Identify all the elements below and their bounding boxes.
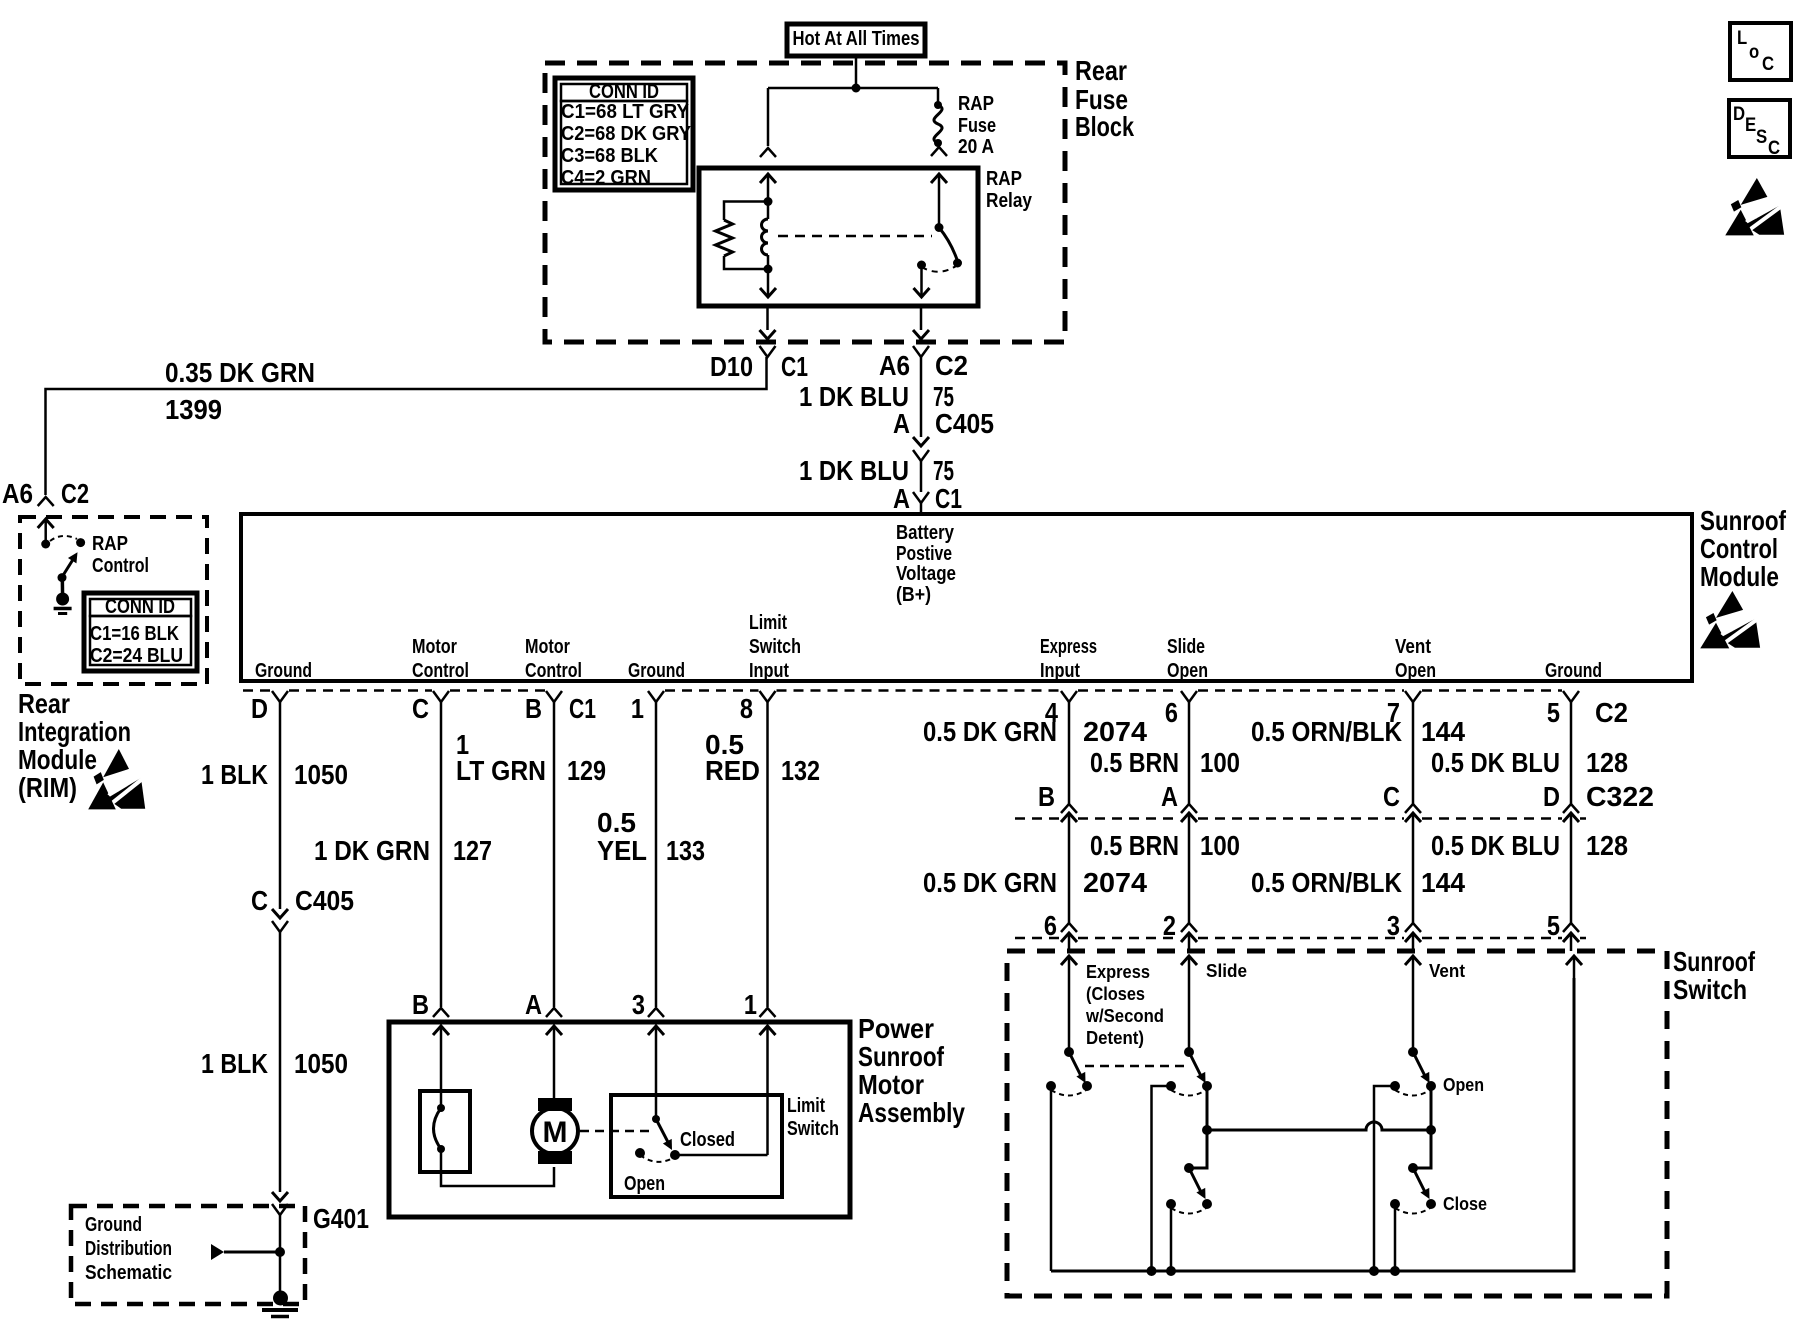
svg-text:Motor: Motor	[412, 636, 457, 658]
svg-text:Slide: Slide	[1206, 961, 1247, 981]
sunroof control module box	[241, 514, 1692, 681]
svg-text:Fuse: Fuse	[958, 115, 996, 137]
connector ID table (rear fuse block)	[555, 78, 693, 190]
wire 1 DK BLU 75 upper segment	[920, 357, 923, 437]
svg-text:A: A	[893, 408, 910, 439]
svg-text:6: 6	[1044, 910, 1057, 941]
svg-text:100: 100	[1200, 747, 1240, 778]
svg-text:Closed: Closed	[680, 1129, 735, 1151]
wire slide close common to bus	[1170, 1204, 1173, 1271]
wire coil to relay pin bottom	[767, 269, 770, 296]
svg-text:Sunroof: Sunroof	[1700, 505, 1787, 536]
ground (RIM internal)	[56, 593, 69, 606]
svg-text:LT GRN: LT GRN	[456, 755, 546, 786]
svg-text:Relay: Relay	[986, 190, 1033, 212]
svg-text:0.5 BRN: 0.5 BRN	[1090, 747, 1179, 778]
wire 0.5 BRN 100 (pin 6 to C322 A)	[1188, 702, 1191, 804]
limit switch dashed arc	[640, 1155, 673, 1162]
svg-text:6: 6	[1165, 697, 1178, 728]
svg-text:0.5 DK BLU: 0.5 DK BLU	[1431, 747, 1560, 778]
ESD symbol (RIM)	[88, 749, 145, 813]
wire 0.5 ORN/BLK 144 (pin 7 to C322 C)	[1412, 702, 1415, 804]
svg-text:Open: Open	[1443, 1075, 1484, 1095]
svg-text:128: 128	[1586, 747, 1628, 778]
node vent open contact	[1426, 1081, 1436, 1091]
svg-text:C322: C322	[1586, 781, 1654, 812]
switch RAP control arm	[62, 556, 76, 578]
switch slide down arm	[1189, 1168, 1202, 1194]
wire 1 BLK 1050 (pin D to C405)	[279, 702, 282, 909]
circuit breaker box	[420, 1091, 470, 1172]
resistor (relay suppression)	[724, 202, 768, 270]
svg-text:1 BLK: 1 BLK	[201, 1048, 268, 1079]
node RAP contact	[76, 538, 85, 547]
svg-text:Detent): Detent)	[1086, 1028, 1144, 1048]
node slide pivot	[1184, 1047, 1194, 1057]
svg-text:Distribution: Distribution	[85, 1238, 172, 1260]
svg-text:144: 144	[1421, 867, 1465, 898]
wire 0.5 DK BLU 128 (C322 to switch 5)	[1570, 813, 1573, 925]
node slide mid junction	[1202, 1125, 1212, 1135]
svg-text:A6: A6	[879, 350, 910, 381]
express dashed arc	[1051, 1090, 1086, 1096]
svg-text:144: 144	[1421, 716, 1465, 747]
svg-text:0.35 DK GRN: 0.35 DK GRN	[165, 357, 315, 388]
wire express input	[1068, 978, 1071, 1052]
svg-text:C: C	[1383, 781, 1400, 812]
wire RAP switch to ground	[61, 577, 65, 597]
svg-text:C405: C405	[295, 885, 354, 916]
node slide close contact	[1202, 1199, 1212, 1209]
svg-text:C2=68 DK GRY: C2=68 DK GRY	[561, 123, 692, 145]
node limit switch open contact	[635, 1148, 645, 1158]
relay RAP Relay box	[699, 168, 978, 306]
wire 1 DK BLU 75 lower segment	[920, 461, 923, 492]
svg-text:1 BLK: 1 BLK	[201, 759, 268, 790]
node bus joint vent-left	[1369, 1266, 1379, 1276]
wire 0.5 ORN/BLK 144 (C322 to switch 3)	[1412, 813, 1415, 925]
node coil top	[764, 197, 773, 206]
node bus joint slide-left	[1147, 1266, 1157, 1276]
svg-text:C1=16 BLK: C1=16 BLK	[90, 623, 179, 645]
connector pairs at sunroof switch	[1061, 923, 1077, 932]
slide dashed arc up	[1171, 1090, 1206, 1096]
wire B+ feed horizontal	[768, 87, 938, 90]
wire 0.35 DK GRN 1399 to RIM	[46, 357, 767, 495]
wire switch ground bus	[1051, 978, 1574, 1271]
relay switch common terminal	[938, 174, 941, 200]
svg-text:S: S	[1756, 127, 1767, 148]
svg-text:C: C	[251, 885, 268, 916]
svg-text:C2: C2	[1595, 697, 1628, 728]
node slide open contact	[1202, 1081, 1212, 1091]
connector pairs at C322	[1061, 804, 1077, 813]
svg-text:Close: Close	[1443, 1194, 1487, 1214]
wire limit switch to pin 1	[675, 1154, 768, 1157]
node vent close contact	[1426, 1199, 1436, 1209]
svg-text:Vent: Vent	[1395, 636, 1431, 658]
wire 0.5 DK GRN 2074 (pin 4 to C322 B)	[1068, 702, 1071, 804]
svg-text:Ground: Ground	[255, 660, 312, 682]
LOC reference box	[1730, 23, 1791, 80]
svg-text:8: 8	[740, 693, 753, 724]
svg-text:1050: 1050	[294, 759, 348, 790]
svg-text:128: 128	[1586, 830, 1628, 861]
svg-text:YEL: YEL	[597, 835, 647, 866]
svg-text:Integration: Integration	[18, 716, 131, 747]
svg-text:3: 3	[632, 989, 645, 1020]
motor M	[553, 1050, 556, 1099]
wire into circuit breaker	[440, 1050, 443, 1108]
svg-text:Ground: Ground	[628, 660, 685, 682]
fuse RAP Fuse 20 A	[934, 101, 942, 109]
limit switch arm	[656, 1119, 670, 1146]
svg-text:E: E	[1745, 115, 1756, 136]
svg-text:Open: Open	[624, 1173, 665, 1195]
svg-text:Ground: Ground	[1545, 660, 1602, 682]
svg-text:L: L	[1737, 28, 1748, 49]
switch express terminal arrow	[1068, 956, 1071, 978]
wire 1 BLK 1050 (C405 to G401)	[279, 932, 282, 1192]
wire relay output down	[920, 265, 923, 296]
svg-text:20 A: 20 A	[958, 136, 994, 158]
ground G401	[273, 1291, 288, 1306]
limit switch box	[611, 1095, 782, 1197]
RIM RAP control input terminal	[44, 519, 47, 544]
node junction on B+ feed	[852, 84, 861, 93]
rear fuse block dashed box	[545, 63, 1065, 342]
wire vent close common to bus	[1394, 1204, 1397, 1271]
node bus joint vent-close	[1390, 1266, 1400, 1276]
relay coil terminal arrow	[767, 174, 770, 202]
svg-text:Control: Control	[92, 555, 149, 577]
off-page reference arrow	[211, 1244, 224, 1260]
svg-text:Ground: Ground	[85, 1214, 142, 1236]
node vent lower pivot	[1408, 1163, 1418, 1173]
svg-text:5: 5	[1547, 910, 1560, 941]
svg-text:Express: Express	[1040, 636, 1097, 658]
svg-text:Control: Control	[412, 660, 469, 682]
svg-text:Limit: Limit	[749, 612, 787, 634]
wire breaker to motor	[441, 1149, 554, 1186]
wire (pin B to motor A)	[553, 702, 556, 1007]
wire fuse to relay switch	[931, 147, 947, 156]
svg-text:C1: C1	[935, 483, 962, 514]
svg-text:C: C	[1768, 138, 1780, 159]
mechanical link motor to limit switch (dashed)	[580, 1130, 650, 1133]
wire 0.5 DK BLU 128 (pin 5 to C322 D)	[1570, 702, 1573, 804]
svg-text:RAP: RAP	[92, 533, 128, 555]
wire right branch to RAP fuse	[937, 88, 940, 105]
node express pivot	[1064, 1047, 1074, 1057]
svg-text:Hot At All Times: Hot At All Times	[793, 28, 920, 50]
svg-text:Postive: Postive	[896, 543, 952, 565]
wire stubs into switch box	[1068, 933, 1071, 951]
wire 0.5 RED 132 (pin 8 to motor 1)	[766, 702, 769, 1007]
svg-text:0.5 DK BLU: 0.5 DK BLU	[1431, 830, 1560, 861]
motor terminal 1 arrow	[766, 1026, 769, 1050]
svg-text:(Closes: (Closes	[1086, 984, 1145, 1004]
svg-text:Control: Control	[525, 660, 582, 682]
svg-text:B: B	[525, 693, 542, 724]
wire into limit switch	[655, 1050, 658, 1119]
svg-text:2074: 2074	[1083, 716, 1147, 747]
connector ID table (RIM)	[84, 593, 197, 671]
svg-text:5: 5	[1547, 697, 1560, 728]
svg-text:Assembly: Assembly	[858, 1097, 965, 1128]
wire relay coil output to D10 connector	[766, 306, 769, 330]
svg-text:A: A	[893, 483, 910, 514]
svg-text:0.5 ORN/BLK: 0.5 ORN/BLK	[1251, 867, 1402, 898]
svg-text:C2: C2	[935, 350, 968, 381]
svg-text:Express: Express	[1086, 962, 1150, 982]
node vent pivot	[1408, 1047, 1418, 1057]
RIM dashed link to RAP contact	[50, 536, 77, 541]
wire 0.5 DK GRN 2074 (C322 to switch 6)	[1068, 813, 1071, 925]
module pin connectors (female)	[272, 691, 288, 702]
svg-text:RAP: RAP	[958, 93, 994, 115]
node express common	[1046, 1081, 1056, 1091]
node RAP switch pivot	[58, 573, 67, 582]
node slide lower pivot	[1184, 1163, 1194, 1173]
svg-text:A: A	[1161, 781, 1178, 812]
relay switch arm	[939, 228, 958, 262]
svg-text:Block: Block	[1075, 111, 1134, 142]
svg-text:Input: Input	[1040, 660, 1080, 682]
node relay switch pivot	[935, 223, 944, 232]
mechanical link express-slide (dashed)	[1085, 1065, 1186, 1068]
svg-text:C: C	[412, 693, 429, 724]
svg-text:1399: 1399	[165, 394, 222, 425]
svg-text:Switch: Switch	[787, 1118, 839, 1140]
svg-text:B: B	[1038, 781, 1055, 812]
svg-text:o: o	[1749, 42, 1759, 63]
svg-text:1: 1	[744, 989, 757, 1020]
svg-text:2: 2	[1163, 910, 1176, 941]
svg-text:Battery: Battery	[896, 522, 955, 544]
wire vent common left down to bus	[1374, 1086, 1395, 1271]
power feed label box: Hot At All Times	[787, 24, 925, 56]
svg-text:RAP: RAP	[986, 168, 1022, 190]
wire cross link slide-vent	[1207, 1122, 1431, 1130]
node slide close common	[1166, 1199, 1176, 1209]
DESC reference box	[1729, 100, 1790, 157]
svg-text:75: 75	[933, 455, 954, 486]
vent dashed arc down	[1395, 1208, 1430, 1214]
svg-text:Module: Module	[18, 744, 97, 775]
switch express arm	[1069, 1052, 1082, 1078]
svg-text:1 DK BLU: 1 DK BLU	[799, 455, 909, 486]
switch vent terminal arrow	[1412, 956, 1415, 978]
svg-text:Voltage: Voltage	[896, 563, 956, 585]
svg-text:w/Second: w/Second	[1085, 1006, 1164, 1026]
connector dashed line (sunroof switch)	[1015, 937, 1060, 940]
svg-text:2074: 2074	[1083, 867, 1147, 898]
svg-text:D: D	[251, 693, 268, 724]
wire slide input	[1188, 978, 1191, 1052]
svg-text:0.5 ORN/BLK: 0.5 ORN/BLK	[1251, 716, 1402, 747]
sunroof switch dashed box	[1007, 951, 1667, 1296]
svg-text:A6: A6	[2, 478, 33, 509]
svg-text:C1=68 LT GRY: C1=68 LT GRY	[561, 101, 690, 123]
svg-text:Sunroof: Sunroof	[1673, 946, 1756, 977]
svg-text:Vent: Vent	[1429, 961, 1465, 981]
wire 0.5 YEL 133 (pin 1 to motor 3)	[655, 702, 658, 1007]
switch ground terminal arrow	[1573, 956, 1576, 978]
inductor relay coil	[767, 202, 770, 220]
svg-text:D: D	[1733, 104, 1745, 125]
svg-text:CONN ID: CONN ID	[105, 596, 175, 618]
motor terminal B arrow	[440, 1026, 443, 1050]
svg-text:Motor: Motor	[525, 636, 570, 658]
circuit breaker element	[437, 1104, 445, 1112]
mechanical link relay (dashed)	[778, 235, 932, 238]
svg-text:C2=24 BLU: C2=24 BLU	[90, 645, 183, 667]
node vent close common	[1390, 1199, 1400, 1209]
node vent mid junction	[1426, 1125, 1436, 1135]
svg-text:(RIM): (RIM)	[18, 772, 77, 803]
svg-text:Motor: Motor	[858, 1069, 924, 1100]
svg-text:G401: G401	[313, 1203, 369, 1234]
wire express common to bus	[1050, 1086, 1053, 1271]
svg-text:0.5 DK GRN: 0.5 DK GRN	[923, 716, 1057, 747]
wire relay switch output to A6 connector	[920, 306, 923, 330]
connector C322 dashed line	[1015, 817, 1060, 820]
svg-text:Limit: Limit	[787, 1095, 825, 1117]
svg-text:Control: Control	[1700, 533, 1778, 564]
node relay arm contact	[953, 259, 962, 268]
power sunroof motor assembly box	[389, 1022, 850, 1217]
svg-text:RED: RED	[705, 755, 760, 786]
node vent open common	[1390, 1081, 1400, 1091]
node slide open common	[1166, 1081, 1176, 1091]
svg-text:0.5 DK GRN: 0.5 DK GRN	[923, 867, 1057, 898]
svg-text:Open: Open	[1167, 660, 1208, 682]
ground distribution dashed box	[71, 1206, 305, 1304]
node ground tap	[275, 1247, 285, 1257]
svg-text:133: 133	[666, 835, 705, 866]
svg-text:Schematic: Schematic	[85, 1262, 172, 1284]
switch vent up arm	[1413, 1052, 1426, 1078]
connector C1/C2 dashed line (module pins)	[243, 689, 271, 692]
svg-text:C3=68 BLK: C3=68 BLK	[561, 145, 659, 167]
svg-text:0.5: 0.5	[597, 807, 636, 838]
motor terminal 3 arrow	[655, 1026, 658, 1050]
svg-text:A: A	[525, 989, 542, 1020]
node relay NO contact	[917, 261, 926, 270]
wire 1 LT GRN 129 (pin C to motor B)	[440, 702, 443, 1007]
switch slide terminal arrow	[1188, 956, 1191, 978]
relay contact dashed arc	[922, 266, 957, 272]
svg-text:C: C	[1762, 54, 1774, 75]
wire slide common left down to bus	[1152, 1086, 1172, 1271]
svg-text:1: 1	[631, 693, 644, 724]
vent dashed arc up	[1395, 1090, 1430, 1096]
svg-text:Open: Open	[1395, 660, 1436, 682]
wire from Hot At All Times down to node	[855, 56, 858, 88]
slide dashed arc down	[1171, 1208, 1206, 1214]
svg-text:Sunroof: Sunroof	[858, 1041, 945, 1072]
wire 0.5 BRN 100 (C322 to switch 2)	[1188, 813, 1191, 925]
svg-text:D: D	[1543, 781, 1560, 812]
svg-text:Module: Module	[1700, 561, 1779, 592]
wire slide contact down	[1189, 1086, 1207, 1168]
switch vent down arm	[1413, 1168, 1426, 1194]
svg-text:Switch: Switch	[749, 636, 801, 658]
ESD symbol (top right)	[1725, 178, 1784, 238]
svg-text:3: 3	[1387, 910, 1400, 941]
wire G401 to ground	[279, 1215, 282, 1294]
svg-text:M: M	[543, 1116, 568, 1149]
svg-text:Power: Power	[858, 1013, 934, 1044]
svg-text:Switch: Switch	[1673, 974, 1747, 1005]
svg-text:129: 129	[567, 755, 606, 786]
svg-text:Input: Input	[749, 660, 789, 682]
wire left branch to RAP relay coil	[767, 88, 770, 146]
switch slide up arm	[1189, 1052, 1202, 1078]
svg-text:132: 132	[781, 755, 820, 786]
svg-text:B: B	[412, 989, 429, 1020]
svg-text:C1: C1	[569, 693, 596, 724]
svg-text:1050: 1050	[294, 1048, 348, 1079]
node RAP control input	[41, 540, 50, 549]
node coil bottom	[764, 265, 773, 274]
wire vent contact down	[1413, 1086, 1431, 1168]
svg-text:C405: C405	[935, 408, 994, 439]
svg-text:(B+): (B+)	[896, 584, 931, 606]
node express contact	[1082, 1081, 1092, 1091]
node limit switch closed contact	[670, 1150, 680, 1160]
svg-text:C4=2 GRN: C4=2 GRN	[561, 167, 651, 189]
motor terminal A arrow	[553, 1026, 556, 1050]
rear integration module dashed box	[20, 517, 207, 684]
node limit switch pivot	[652, 1115, 660, 1123]
svg-text:Slide: Slide	[1167, 636, 1205, 658]
svg-text:C2: C2	[61, 478, 89, 509]
svg-text:CONN ID: CONN ID	[589, 81, 659, 103]
svg-text:0.5 BRN: 0.5 BRN	[1090, 830, 1179, 861]
wire vent input	[1412, 978, 1415, 1052]
svg-text:C1: C1	[781, 351, 808, 382]
wire pin1 drop	[766, 1050, 769, 1155]
svg-text:127: 127	[453, 835, 492, 866]
svg-text:Rear: Rear	[1075, 55, 1127, 86]
svg-text:100: 100	[1200, 830, 1240, 861]
svg-text:Rear: Rear	[18, 688, 70, 719]
node bus joint slide-close	[1166, 1266, 1176, 1276]
svg-text:D10: D10	[710, 351, 753, 382]
svg-text:1 DK GRN: 1 DK GRN	[314, 835, 430, 866]
ESD symbol (sunroof control module)	[1700, 591, 1760, 651]
